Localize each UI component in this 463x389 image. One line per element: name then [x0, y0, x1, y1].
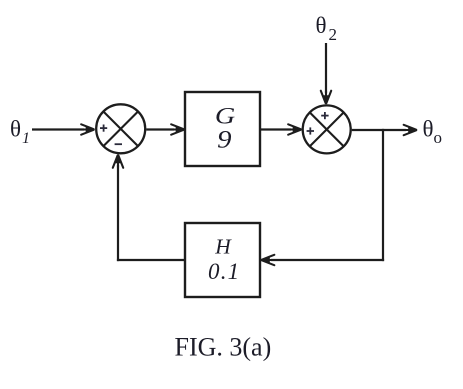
- wire H to left vertical: [117, 259, 185, 261]
- summing junction S2: [303, 105, 351, 153]
- svg-text:FIG. 3(a): FIG. 3(a): [175, 333, 272, 362]
- svg-text:θ: θ: [423, 117, 434, 142]
- svg-text:1: 1: [22, 130, 30, 147]
- wire theta1 to summing junction S1: [32, 128, 84, 130]
- svg-text:θ: θ: [10, 116, 21, 141]
- svg-text:θ: θ: [316, 13, 327, 38]
- plus sign at S2 left input: [307, 127, 314, 134]
- plus sign at S2 top input: [321, 112, 328, 119]
- svg-text:9: 9: [217, 125, 232, 153]
- svg-text:o: o: [434, 128, 443, 147]
- arrowhead into S1 bottom: [113, 154, 123, 168]
- wire theta2 down to S2: [325, 43, 327, 93]
- svg-text:0.1: 0.1: [208, 259, 240, 284]
- wire feedback top horizontal to H: [271, 259, 384, 261]
- minus sign at S1 bottom input: [115, 143, 122, 145]
- wire G to summing junction S2: [260, 128, 291, 130]
- summing junction S1: [96, 104, 145, 153]
- wire feedback tap down from output line: [382, 129, 384, 261]
- svg-text:2: 2: [329, 25, 338, 44]
- arrowhead into S1: [81, 124, 95, 134]
- svg-text:H: H: [214, 235, 232, 259]
- arrowhead into G: [171, 124, 185, 134]
- arrowhead at output: [404, 125, 418, 135]
- block G (gain 9): [185, 92, 260, 166]
- wire left vertical up to S1: [117, 165, 119, 261]
- node theta_o output label: [423, 117, 443, 147]
- node theta2 input label: [316, 13, 338, 44]
- wire S1 to block G: [146, 128, 174, 130]
- arrowhead into S2 top: [321, 91, 331, 105]
- plus sign at S1 left input: [100, 125, 107, 132]
- block H (gain 0.1): [185, 223, 260, 297]
- arrowhead into H right side: [261, 255, 275, 265]
- wire S2 to output: [352, 129, 406, 131]
- node theta1 input label: [10, 116, 30, 147]
- arrowhead into S2: [288, 124, 302, 134]
